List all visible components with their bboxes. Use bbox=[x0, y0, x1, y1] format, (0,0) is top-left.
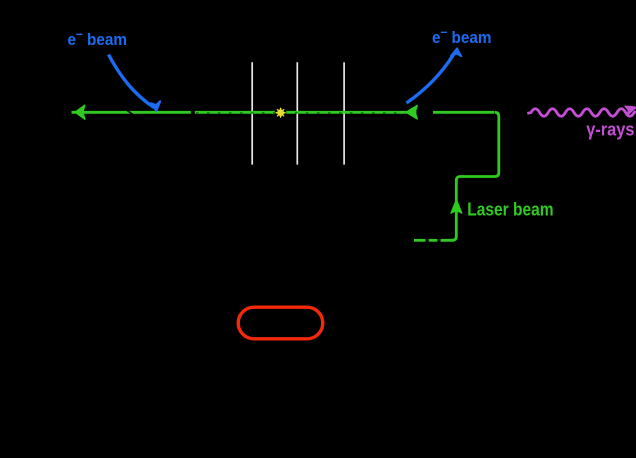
mirror plate M1 bbox=[251, 62, 253, 164]
arrowhead e-beam right bbox=[451, 48, 462, 56]
arrowhead laser up bbox=[451, 200, 462, 213]
wire notch at x=129 bbox=[127, 111, 132, 115]
arrowhead e-beam left bbox=[151, 101, 160, 111]
wire: dashed bottom laser segment bbox=[414, 239, 426, 242]
svg-text:Laser beam: Laser beam bbox=[467, 199, 553, 220]
mirror plate M3 bbox=[343, 62, 345, 164]
arrowhead left end of beam line bbox=[75, 105, 85, 119]
detector stadium bbox=[238, 307, 323, 339]
svg-text:γ-rays: γ-rays bbox=[586, 118, 634, 139]
dashed laser texture on beam line bbox=[196, 112, 404, 114]
electron beam arrow left (curve) bbox=[109, 55, 155, 108]
gamma ray wavy arrow bbox=[527, 109, 635, 117]
arrowhead gamma bbox=[625, 106, 636, 115]
collision star bbox=[276, 108, 285, 117]
arrowhead mid beam line bbox=[406, 106, 417, 119]
wire: main horizontal green beam line bbox=[72, 111, 495, 114]
wire: laser step path bbox=[441, 112, 499, 240]
mirror plate M2 bbox=[296, 62, 298, 164]
electron beam arrow right (curve) bbox=[407, 55, 454, 104]
